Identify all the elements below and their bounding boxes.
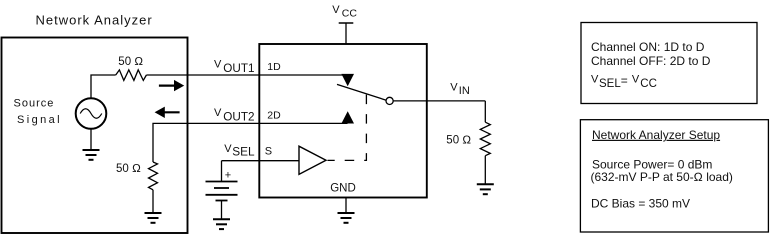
svg-text:V: V (224, 143, 232, 155)
svg-text:SEL: SEL (599, 78, 621, 90)
value label 50 ohm (VIN termination) (446, 135, 471, 147)
resistor 50 ohm load in analyzer (vertical) (149, 162, 158, 190)
ground (under AC source) (83, 129, 100, 160)
resistor 50 ohm termination at VIN (vertical) (480, 122, 490, 156)
VCC supply terminal (339, 23, 354, 44)
svg-text:CC: CC (640, 78, 657, 90)
resistor 50 ohm series (horizontal) (116, 70, 147, 81)
svg-text:Channel ON: 1D to D: Channel ON: 1D to D (591, 40, 705, 54)
pin label 2D (267, 110, 281, 122)
svg-text:1D: 1D (267, 61, 281, 73)
svg-text:S: S (265, 146, 272, 158)
signal flow arrow (left, VOUT2) (155, 107, 180, 118)
wire: VIN drop to load resistor (484, 101, 486, 122)
control buffer (triangle) (299, 146, 326, 174)
signal flow arrow (right, VOUT1) (159, 80, 184, 91)
wire: series resistor to 1D pin (VOUT1 net) (146, 74, 347, 76)
battery VSEL (2 cells) (206, 161, 238, 220)
label: Source Signal (14, 98, 62, 126)
node VOUT2 label (214, 107, 254, 123)
svg-text:Network Analyzer: Network Analyzer (36, 13, 153, 28)
pin label S (265, 146, 272, 158)
value label 50 ohm (series) (118, 56, 143, 68)
ground (under VIN termination) (477, 156, 494, 195)
svg-text:50 Ω: 50 Ω (446, 135, 471, 147)
svg-text:2D: 2D (267, 110, 281, 122)
switch contact 2D (up triangle) (341, 111, 354, 123)
svg-text:Network Analyzer Setup: Network Analyzer Setup (592, 128, 720, 142)
AC source (source signal generator) (76, 98, 107, 129)
svg-text:50 Ω: 50 Ω (116, 163, 141, 175)
svg-text:CC: CC (342, 8, 358, 20)
svg-text:V: V (214, 107, 222, 119)
svg-text:Channel OFF: 2D to D: Channel OFF: 2D to D (591, 54, 711, 68)
mux IC box (259, 44, 427, 198)
svg-text:Source: Source (14, 98, 55, 110)
svg-text:V: V (591, 74, 599, 86)
note box 2 (network analyzer setup) (580, 120, 768, 232)
wire: GND pin to ground (345, 198, 347, 213)
label: Network Analyzer (36, 13, 153, 28)
node VOUT1 label (214, 59, 254, 75)
VCC label (332, 4, 357, 20)
svg-text:50 Ω: 50 Ω (118, 56, 143, 68)
node VSEL label (224, 143, 255, 158)
ground (under analyzer load resistor) (145, 190, 162, 223)
switch pole circle (386, 97, 393, 104)
svg-text:OUT1: OUT1 (223, 62, 254, 75)
svg-text:DC Bias = 350 mV: DC Bias = 350 mV (591, 197, 690, 211)
wire: S pin to buffer input (222, 160, 300, 162)
pin label 1D (267, 61, 281, 73)
svg-text:V: V (450, 81, 458, 93)
svg-text:V: V (214, 59, 222, 71)
svg-text:GND: GND (330, 182, 356, 194)
svg-text:V: V (632, 74, 640, 86)
value label 50 ohm (analyzer load) (116, 163, 141, 175)
svg-text:V: V (332, 4, 340, 16)
ground (under battery) (213, 219, 230, 229)
wire: VOUT2 net from 2D pin to internal load (153, 123, 348, 162)
svg-text:=: = (621, 74, 628, 88)
switch contact 1D (down triangle) (341, 74, 354, 86)
wire: pole to VIN pin (393, 100, 485, 102)
wire: source top to series resistor (91, 75, 116, 98)
svg-text:+: + (225, 169, 231, 181)
svg-text:OUT2: OUT2 (223, 110, 254, 123)
note box 1 (channel states) (581, 23, 757, 104)
svg-text:IN: IN (459, 85, 470, 97)
ground (IC GND) (338, 213, 355, 223)
pin label GND (330, 182, 356, 194)
svg-text:Signal: Signal (17, 114, 62, 126)
network analyzer box (2, 38, 188, 234)
svg-text:SEL: SEL (232, 145, 255, 159)
svg-text:(632-mV P-P at 50-Ω load): (632-mV P-P at 50-Ω load) (591, 170, 733, 184)
node VIN label (450, 81, 470, 97)
dashed control line (328, 95, 367, 161)
switch wiper arm (337, 84, 386, 100)
